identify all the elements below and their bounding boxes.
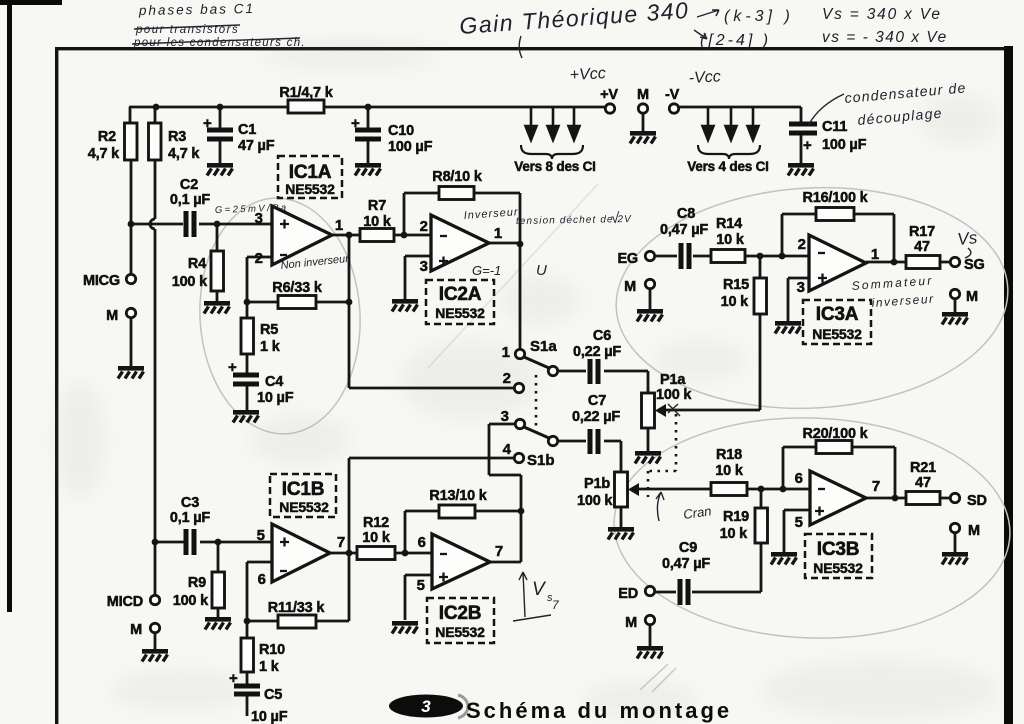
svg-text:S1b: S1b <box>527 452 555 469</box>
svg-text:MICG: MICG <box>83 273 120 289</box>
svg-text:√: √ <box>611 210 620 227</box>
svg-text:10 µF: 10 µF <box>257 390 294 406</box>
svg-text:M: M <box>625 615 637 631</box>
svg-text:C3: C3 <box>181 495 199 511</box>
svg-text:MICD: MICD <box>107 594 143 610</box>
svg-text:5: 5 <box>795 514 803 531</box>
svg-text:0,22 µF: 0,22 µF <box>572 409 620 425</box>
svg-text:R14: R14 <box>716 216 742 232</box>
svg-text:0,47 µF: 0,47 µF <box>662 556 710 572</box>
svg-text:R19: R19 <box>723 509 749 525</box>
svg-text:+: + <box>803 137 812 154</box>
svg-text:C7: C7 <box>588 393 606 409</box>
svg-text:C8: C8 <box>677 206 695 222</box>
svg-text:Sommateur: Sommateur <box>851 273 934 293</box>
svg-text:NE5532: NE5532 <box>279 499 329 515</box>
svg-text:C2: C2 <box>180 177 198 193</box>
svg-text:U: U <box>536 262 547 279</box>
svg-text:R4: R4 <box>188 256 206 272</box>
svg-text:4: 4 <box>503 441 512 458</box>
svg-text:1: 1 <box>871 246 879 263</box>
svg-text:3: 3 <box>797 279 805 296</box>
svg-text:1: 1 <box>335 217 343 234</box>
svg-text:R20/100 k: R20/100 k <box>802 426 868 442</box>
svg-text:IC3A: IC3A <box>816 304 859 325</box>
svg-text:R16/100 k: R16/100 k <box>802 190 868 206</box>
svg-text:R2: R2 <box>98 129 116 145</box>
svg-text:IC2B: IC2B <box>439 603 482 624</box>
svg-text:R12: R12 <box>363 515 389 531</box>
svg-text:-V: -V <box>665 87 680 103</box>
svg-text:+V: +V <box>600 87 618 103</box>
svg-text:6: 6 <box>258 571 266 588</box>
svg-text:C5: C5 <box>264 687 282 703</box>
svg-text:EG: EG <box>617 251 638 267</box>
svg-text:NE5532: NE5532 <box>435 624 485 640</box>
svg-text:R11/33 k: R11/33 k <box>268 600 326 616</box>
svg-text:M: M <box>637 87 649 103</box>
svg-text:6: 6 <box>418 534 426 551</box>
svg-text:Vers 4 des CI: Vers 4 des CI <box>687 159 768 174</box>
svg-text:Cran: Cran <box>682 503 712 522</box>
svg-text:3: 3 <box>420 258 428 275</box>
svg-text:+: + <box>351 115 360 132</box>
svg-text:10 k: 10 k <box>721 294 750 310</box>
svg-text:4,7 k: 4,7 k <box>168 146 200 162</box>
svg-text:M: M <box>106 308 118 324</box>
svg-text:7: 7 <box>552 598 560 612</box>
svg-text:Gain Théorique 340: Gain Théorique 340 <box>459 0 691 39</box>
svg-text:10 k: 10 k <box>363 214 392 230</box>
svg-text:C10: C10 <box>388 123 414 139</box>
svg-text:1 k: 1 k <box>260 339 281 355</box>
svg-text:3: 3 <box>501 408 509 425</box>
svg-text:5: 5 <box>417 577 425 594</box>
svg-text:10 µF: 10 µF <box>251 709 288 724</box>
svg-text:-Vcc: -Vcc <box>688 68 721 87</box>
svg-text:0,1 µF: 0,1 µF <box>170 192 211 208</box>
svg-text:M: M <box>624 279 636 295</box>
svg-text:7: 7 <box>872 478 880 495</box>
svg-text:Vs = 340 x Ve: Vs = 340 x Ve <box>822 6 942 23</box>
svg-text:S1a: S1a <box>530 338 557 355</box>
svg-text:R13/10 k: R13/10 k <box>429 488 487 504</box>
svg-text:Vers 8 des CI: Vers 8 des CI <box>514 159 595 174</box>
svg-text:100 k: 100 k <box>656 387 692 403</box>
svg-text:0,47 µF: 0,47 µF <box>660 222 708 238</box>
svg-text:47: 47 <box>915 475 931 491</box>
svg-text:4,7 k: 4,7 k <box>88 146 120 162</box>
svg-text:Schéma du montage: Schéma du montage <box>466 698 732 723</box>
svg-text:R10: R10 <box>259 642 285 658</box>
svg-text:5: 5 <box>257 527 265 544</box>
svg-text:2: 2 <box>420 218 428 235</box>
svg-text:M: M <box>968 523 980 539</box>
svg-text:10 k: 10 k <box>362 530 391 546</box>
svg-text:6: 6 <box>795 470 803 487</box>
svg-text:+: + <box>229 670 238 687</box>
svg-text:2: 2 <box>255 250 263 267</box>
svg-text:phases bas C1: phases bas C1 <box>138 1 255 18</box>
svg-text:M: M <box>130 622 142 638</box>
svg-text:100 µF: 100 µF <box>388 139 433 155</box>
svg-text:100 k: 100 k <box>173 593 209 609</box>
svg-text:C11: C11 <box>822 119 847 135</box>
svg-text:IC2A: IC2A <box>439 284 482 305</box>
svg-text:3: 3 <box>421 697 431 716</box>
svg-text:M: M <box>966 289 978 305</box>
svg-text:0,1 µF: 0,1 µF <box>170 510 211 526</box>
svg-text:([2-4] ): ([2-4] ) <box>700 32 771 49</box>
svg-text:C1: C1 <box>238 122 256 138</box>
svg-text:1: 1 <box>494 225 502 242</box>
svg-text:Vs: Vs <box>956 228 978 249</box>
svg-text:V: V <box>532 579 547 600</box>
svg-text:P1a: P1a <box>660 372 686 388</box>
svg-text:SD: SD <box>967 493 987 509</box>
svg-text:NE5532: NE5532 <box>813 560 863 576</box>
svg-text:7: 7 <box>495 543 503 560</box>
svg-text:100 k: 100 k <box>172 274 208 290</box>
svg-text:100 k: 100 k <box>577 493 613 509</box>
svg-text:R17: R17 <box>909 224 935 240</box>
svg-text:R7: R7 <box>368 198 386 214</box>
svg-text:R18: R18 <box>716 447 742 463</box>
svg-text:C4: C4 <box>265 374 283 390</box>
svg-text:G=-1: G=-1 <box>472 263 501 278</box>
svg-text:SG: SG <box>964 257 985 273</box>
svg-text:2: 2 <box>798 236 806 253</box>
svg-text:10 k: 10 k <box>715 463 744 479</box>
svg-text:R8/10 k: R8/10 k <box>432 169 483 185</box>
svg-text:NE5532: NE5532 <box>812 326 862 342</box>
svg-text:C6: C6 <box>593 328 611 344</box>
svg-text:C9: C9 <box>679 540 697 556</box>
svg-text:1 k: 1 k <box>259 659 280 675</box>
svg-text:+: + <box>203 115 212 132</box>
svg-text:100 µF: 100 µF <box>822 137 867 153</box>
svg-text:(k-3] ): (k-3] ) <box>724 8 794 25</box>
svg-text:+Vcc: +Vcc <box>569 65 606 84</box>
svg-text:+: + <box>228 359 237 376</box>
svg-text:ED: ED <box>618 586 638 602</box>
svg-text:7: 7 <box>337 534 345 551</box>
svg-text:NE5532: NE5532 <box>285 181 335 197</box>
svg-text:10 k: 10 k <box>720 526 749 542</box>
svg-text:inverseur: inverseur <box>871 292 935 310</box>
svg-text:P1b: P1b <box>584 476 610 492</box>
svg-text:R3: R3 <box>168 129 186 145</box>
svg-text:IC3B: IC3B <box>817 539 860 560</box>
svg-text:R15: R15 <box>723 277 749 293</box>
svg-text:10 k: 10 k <box>716 232 745 248</box>
svg-text:vs = - 340 x Ve: vs = - 340 x Ve <box>822 29 948 46</box>
svg-text:R21: R21 <box>910 460 936 476</box>
svg-text:1: 1 <box>502 344 510 361</box>
svg-text:R9: R9 <box>188 575 206 591</box>
svg-text:R5: R5 <box>260 322 278 338</box>
svg-text:2: 2 <box>503 370 511 387</box>
svg-text:47 µF: 47 µF <box>238 138 275 154</box>
svg-text:47: 47 <box>914 239 930 255</box>
svg-text:NE5532: NE5532 <box>435 305 485 321</box>
svg-text:IC1A: IC1A <box>289 162 332 183</box>
svg-text:R6/33 k: R6/33 k <box>272 280 323 296</box>
svg-text:0,22 µF: 0,22 µF <box>573 344 621 360</box>
svg-text:Inverseur: Inverseur <box>463 206 519 222</box>
svg-text:R1/4,7 k: R1/4,7 k <box>279 85 333 101</box>
svg-text:IC1B: IC1B <box>282 479 325 500</box>
